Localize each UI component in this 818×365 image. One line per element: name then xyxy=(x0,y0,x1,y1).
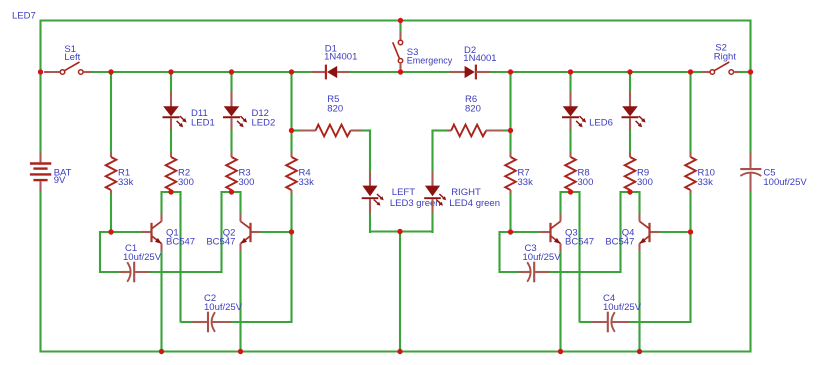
svg-text:9V: 9V xyxy=(54,175,66,186)
wire column R7 upper xyxy=(509,72,511,153)
svg-text:LED2: LED2 xyxy=(252,118,276,129)
svg-text:820: 820 xyxy=(465,104,481,115)
transistor Q2 BC547 xyxy=(249,223,251,242)
svg-text:10uf/25V: 10uf/25V xyxy=(603,302,642,313)
svg-text:33k: 33k xyxy=(299,177,315,188)
wire LED4 lower xyxy=(431,213,433,233)
wire C3 hookup left xyxy=(500,232,519,272)
wire R9 collector box xyxy=(621,192,640,273)
transistor Q1 BC547 xyxy=(150,223,152,242)
wire LED3 lower xyxy=(369,213,371,233)
wire column R3 upper xyxy=(230,72,232,92)
wire main bus left segment xyxy=(91,71,311,73)
wire Q4 base xyxy=(650,231,659,233)
wire C1 to R3 box xyxy=(150,271,223,273)
svg-text:BC547: BC547 xyxy=(206,237,235,248)
wire column R10 lower xyxy=(689,193,691,232)
capacitor C5 100uf/25V xyxy=(740,152,761,191)
transistor Q4 BC547 xyxy=(648,223,650,242)
wire Q1 emitter to bus xyxy=(160,252,162,352)
wire column R8 upper xyxy=(569,72,571,92)
wire C1 hookup left xyxy=(100,232,119,272)
resistor R10 xyxy=(689,152,691,157)
wire column R1 lower xyxy=(110,193,112,232)
svg-text:LED1: LED1 xyxy=(191,118,215,129)
svg-text:LED6: LED6 xyxy=(589,118,613,129)
wire column R2 mid xyxy=(170,130,172,153)
svg-text:100uf/25V: 100uf/25V xyxy=(763,177,807,188)
resistor R5 xyxy=(299,129,316,131)
junction dot LED3-LED4 join xyxy=(397,229,402,234)
wire R6 right stub xyxy=(503,129,511,131)
wire main bus right segment xyxy=(490,71,701,73)
svg-text:Right: Right xyxy=(714,52,737,63)
resistor R7 xyxy=(509,152,511,157)
svg-text:LEFT: LEFT xyxy=(392,187,415,198)
svg-text:33k: 33k xyxy=(518,177,534,188)
resistor R8 xyxy=(569,152,571,157)
svg-text:10uf/25V: 10uf/25V xyxy=(123,252,162,263)
svg-text:LED4 green: LED4 green xyxy=(449,198,500,209)
svg-text:300: 300 xyxy=(239,177,255,188)
wire column R10 upper xyxy=(689,72,691,153)
switch S2 xyxy=(693,62,740,74)
wire R6 to LED4 xyxy=(431,130,433,172)
wire main bus center segment xyxy=(350,71,450,73)
wire column R9 mid xyxy=(629,130,631,153)
junction dots base nodes xyxy=(108,229,113,234)
svg-text:BC547: BC547 xyxy=(605,237,634,248)
svg-text:300: 300 xyxy=(637,177,653,188)
junction dots top bus xyxy=(398,18,403,23)
LED D11 LED1 xyxy=(170,92,172,107)
capacitor C3 10uf/25V xyxy=(519,271,531,273)
wire LED3-LED4 join xyxy=(369,230,434,232)
switch S3 xyxy=(393,21,403,71)
wire Q2 emitter to bus xyxy=(239,252,241,352)
LED D12 LED2 xyxy=(230,92,232,107)
LED D? LED6 xyxy=(569,92,571,107)
wire Q3 base xyxy=(510,231,541,233)
wire R8 collector box xyxy=(561,192,580,323)
wire Q4 emitter to bus xyxy=(638,252,640,352)
switch S1 xyxy=(44,62,92,74)
wire column R9 upper xyxy=(629,72,631,92)
svg-text:10uf/25V: 10uf/25V xyxy=(523,252,562,263)
wire bottom bus xyxy=(41,350,751,352)
junction dots main bus xyxy=(38,69,43,74)
wire C4 to R10 column xyxy=(630,231,691,322)
transistor Q3 BC547 xyxy=(549,223,551,242)
svg-text:33k: 33k xyxy=(118,177,134,188)
resistor R3 xyxy=(230,152,232,157)
wire main bus S2-to-rail segment xyxy=(739,71,750,73)
wire right rail upper xyxy=(749,20,751,153)
svg-text:1N4001: 1N4001 xyxy=(324,52,357,63)
LED D? right outer xyxy=(629,92,631,107)
wire left rail upper xyxy=(39,20,41,153)
wire R5 left stub xyxy=(292,129,300,131)
wire C2 to R4 column xyxy=(231,231,292,322)
svg-text:1N4001: 1N4001 xyxy=(463,53,496,64)
wire R2 collector box xyxy=(162,192,181,323)
capacitor C4 10uf/25V xyxy=(580,321,592,323)
wire right rail lower xyxy=(749,192,751,353)
svg-text:300: 300 xyxy=(178,177,194,188)
wire center vertical to bottom bus xyxy=(399,232,401,353)
svg-text:Left: Left xyxy=(64,52,80,63)
svg-text:10uf/25V: 10uf/25V xyxy=(204,302,243,313)
svg-text:300: 300 xyxy=(578,177,594,188)
diode D1 1N4001 xyxy=(311,65,350,80)
wire column R4 lower xyxy=(290,193,292,232)
svg-text:RIGHT: RIGHT xyxy=(451,187,481,198)
resistor R4 xyxy=(290,152,292,157)
LED D? LED3 left indicator xyxy=(369,171,371,186)
junction dots R5/R6 taps xyxy=(289,128,294,133)
battery BAT 9V xyxy=(30,152,51,191)
wire column R7 lower xyxy=(509,193,511,232)
wire column R2 upper xyxy=(170,72,172,92)
resistor R6 xyxy=(447,129,452,131)
svg-text:33k: 33k xyxy=(698,177,714,188)
svg-text:BC547: BC547 xyxy=(166,237,195,248)
wire R5 to LED3 xyxy=(362,129,371,131)
wire Q2 base xyxy=(251,231,260,233)
wire left rail lower xyxy=(39,191,41,353)
wire R3 collector box xyxy=(222,192,241,273)
junction dots bottom bus xyxy=(159,349,164,354)
wire top bus xyxy=(41,19,751,21)
svg-text:BC547: BC547 xyxy=(565,237,594,248)
resistor R1 xyxy=(110,152,112,157)
svg-text:Emergency: Emergency xyxy=(407,56,453,67)
resistor R9 xyxy=(629,152,631,157)
svg-text:LED7: LED7 xyxy=(12,11,36,22)
wire C3 to R9 box xyxy=(550,271,622,273)
wire Q3 emitter to bus xyxy=(559,252,561,352)
wire column R1 upper xyxy=(110,72,112,153)
junction dots collector boxes xyxy=(168,189,173,194)
resistor R2 xyxy=(170,152,172,157)
wire Q1 base xyxy=(110,231,141,233)
diode D2 1N4001 xyxy=(450,65,491,80)
capacitor C1 10uf/25V xyxy=(119,271,130,273)
wire column R8 mid xyxy=(569,130,571,153)
wire column R3 mid xyxy=(230,130,232,153)
capacitor C2 10uf/25V xyxy=(181,321,193,323)
LED D? LED4 right indicator xyxy=(431,171,433,186)
wire column R4 upper xyxy=(290,72,292,153)
svg-text:820: 820 xyxy=(327,104,343,115)
